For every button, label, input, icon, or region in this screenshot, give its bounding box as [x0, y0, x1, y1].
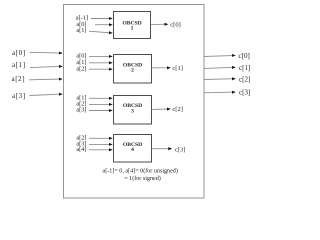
svg-text:= 1(for signed): = 1(for signed) — [124, 175, 161, 182]
svg-text:a[2]: a[2] — [12, 75, 26, 83]
svg-text:3: 3 — [131, 108, 134, 114]
svg-text:c[3]: c[3] — [175, 146, 185, 153]
svg-text:1: 1 — [131, 26, 134, 32]
svg-text:a[1]: a[1] — [12, 61, 26, 69]
svg-text:c[0]: c[0] — [170, 21, 180, 28]
svg-text:a[1]: a[1] — [76, 27, 86, 34]
svg-text:c[1]: c[1] — [239, 64, 250, 72]
svg-text:a[0]: a[0] — [12, 49, 26, 57]
svg-text:2: 2 — [131, 68, 134, 74]
svg-text:c[2]: c[2] — [239, 75, 250, 83]
svg-text:a[3]: a[3] — [76, 107, 86, 114]
svg-text:a[-1]= 0, a[4]= 0(for unsigned: a[-1]= 0, a[4]= 0(for unsigned) — [102, 168, 177, 175]
svg-text:a[4]: a[4] — [76, 146, 86, 153]
svg-text:a[2]: a[2] — [76, 65, 86, 72]
svg-text:c[1]: c[1] — [172, 65, 182, 72]
svg-text:4: 4 — [131, 147, 134, 153]
svg-text:c[3]: c[3] — [239, 89, 250, 97]
svg-text:c[0]: c[0] — [239, 52, 250, 60]
svg-text:c[2]: c[2] — [172, 106, 182, 113]
svg-text:a[3]: a[3] — [12, 92, 26, 100]
